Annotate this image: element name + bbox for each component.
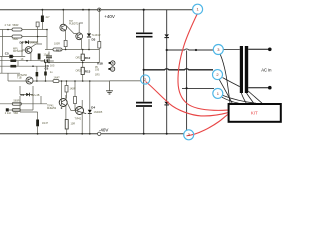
svg-text:-40V: -40V <box>99 128 109 133</box>
wire vertical x47 <box>46 30 48 50</box>
red wire 2 <box>146 82 228 116</box>
output terminal B <box>109 62 111 64</box>
resistor R12 vertical <box>81 54 84 61</box>
node 3 right <box>213 45 223 55</box>
svg-text:100R: 100R <box>54 43 60 46</box>
vertical x8 <box>3 30 9 82</box>
diode D7 on bus2 <box>164 102 169 105</box>
tiny component labels (olive) <box>5 16 103 126</box>
svg-text:C7: C7 <box>46 58 50 62</box>
svg-text:195: 195 <box>95 68 100 71</box>
svg-text:4 7uF: 4 7uF <box>5 24 12 27</box>
bus line 2 <box>166 10 168 134</box>
transformer core bar 2 <box>245 46 248 93</box>
wire H3 to node 1 <box>182 87 214 89</box>
svg-text:1N4005: 1N4005 <box>94 111 103 114</box>
svg-text:10uF: 10uF <box>44 53 50 56</box>
node 2 left <box>141 75 150 84</box>
svg-text:D3: D3 <box>92 37 96 41</box>
wire core to kit b <box>247 93 254 103</box>
wire node2 tap <box>223 78 240 87</box>
wire row 36.5 <box>0 36 47 38</box>
comp row62.5 <box>45 62 99 64</box>
svg-text:R12: R12 <box>85 56 91 60</box>
resistor R16 column x99 <box>98 10 100 63</box>
junction dots left schematic <box>7 9 100 135</box>
svg-text:10R: 10R <box>71 123 76 126</box>
diode D6 on bus2 <box>164 34 169 37</box>
wire H2 thick <box>144 69 213 70</box>
diode D4 <box>88 110 92 113</box>
wire node3 to core <box>223 49 240 51</box>
transistor Q3 <box>25 47 32 54</box>
capacitor C9 dark <box>38 54 41 60</box>
diode D3 <box>25 41 28 44</box>
svg-text:MJE252: MJE252 <box>47 107 57 110</box>
svg-text:TL431R: TL431R <box>92 34 101 37</box>
svg-text:2 2uF: 2 2uF <box>5 112 12 115</box>
diode D1 <box>26 93 29 96</box>
resistor R10 vertical x66.5 <box>65 86 68 93</box>
ground <box>106 91 113 94</box>
wire row 49.5 <box>45 49 99 51</box>
svg-text:OR22: OR22 <box>76 70 83 73</box>
svg-text:560R: 560R <box>13 24 19 27</box>
svg-text:R13: R13 <box>85 69 91 73</box>
resistor R15 vertical under Q6 <box>65 120 68 130</box>
resistor R9 row81 <box>53 80 59 83</box>
capacitor C15 plates <box>136 103 152 106</box>
bus line 3 <box>186 51 188 131</box>
wire row 64.5 <box>0 65 45 67</box>
wire node1 to kit corner <box>222 97 239 103</box>
node 1 right <box>213 88 223 98</box>
node 3 left <box>184 130 194 140</box>
wire row 81 <box>8 81 110 83</box>
ground lead from node 2 <box>110 81 142 91</box>
wire D3 row <box>22 37 38 43</box>
diode D5 column x89 <box>88 10 90 50</box>
capacitor C7 <box>46 56 52 58</box>
wire +40V top rail <box>0 9 193 11</box>
bus junction dots <box>143 9 198 135</box>
capacitor C8 <box>45 59 48 62</box>
capacitor C14 plates <box>136 33 153 36</box>
svg-text:560R: 560R <box>14 100 20 103</box>
svg-text:D3: D3 <box>20 41 24 45</box>
resistor R3 top-left <box>12 28 22 31</box>
svg-text:T1B: T1B <box>17 77 22 80</box>
terminal +40V <box>98 8 101 11</box>
svg-text:PLBDT2: PLBDT2 <box>69 22 79 25</box>
svg-text:+40V: +40V <box>104 14 115 19</box>
resistor R13 vertical <box>81 67 84 74</box>
red wire 1 <box>178 14 228 111</box>
svg-text:B: B <box>112 61 114 65</box>
wire node3 to kit <box>220 54 230 103</box>
terminal -40V <box>98 132 101 135</box>
svg-text:R17: R17 <box>56 48 61 52</box>
resistor R6 vertical under Q1 <box>64 40 67 46</box>
wire AC bottom <box>248 87 269 89</box>
wire vertical x42.4 <box>41 10 43 30</box>
input terminal blobs <box>10 59 16 62</box>
svg-text:TIP42: TIP42 <box>75 118 82 121</box>
wire core to kit c <box>248 91 262 103</box>
transistor Q2 <box>76 33 83 40</box>
svg-text:D1: D1 <box>21 93 25 97</box>
wire node2 to kit <box>219 79 232 103</box>
svg-text:1N4?: 1N4? <box>42 122 49 125</box>
svg-text:C8: C8 <box>45 64 49 68</box>
wire core to kit a <box>241 93 246 103</box>
wire row 29.5 <box>0 29 47 31</box>
transistor Q7 <box>76 107 84 115</box>
svg-text:56R: 56R <box>14 112 19 115</box>
resistor R4 <box>12 35 22 38</box>
wire node1 to kit top <box>222 95 256 103</box>
svg-text:1R5: 1R5 <box>95 74 100 77</box>
svg-text:4x7: 4x7 <box>46 16 51 19</box>
resistor R5 vertical <box>36 22 39 27</box>
bus line 1 <box>143 10 145 134</box>
svg-text:MPSA06: MPSA06 <box>13 50 23 53</box>
wire -40V bottom rail <box>0 133 184 135</box>
capacitor C2 dark <box>41 16 44 23</box>
svg-text:1N4148: 1N4148 <box>30 42 39 45</box>
svg-text:AC in: AC in <box>261 67 272 72</box>
transformer core bar 1 <box>240 46 243 93</box>
bold component labels <box>5 37 103 109</box>
svg-text:KIT: KIT <box>251 111 258 116</box>
capacitor C10 dark <box>36 72 39 76</box>
wire H1 to node 3 <box>167 49 214 50</box>
transistor Q1 <box>60 24 67 31</box>
output terminal C <box>108 68 110 70</box>
svg-text:56kR: 56kR <box>13 38 19 41</box>
wire AC top <box>248 48 269 50</box>
wire row 59.5 <box>0 60 45 62</box>
diode D2 <box>36 120 39 127</box>
secondary wires to nodes <box>219 50 262 104</box>
svg-text:C5: C5 <box>5 51 9 55</box>
svg-text:1K: 1K <box>21 58 24 61</box>
svg-text:1K5: 1K5 <box>50 64 55 67</box>
svg-text:Ref+4B: Ref+4B <box>31 94 40 97</box>
node 1 left <box>193 4 203 14</box>
svg-text:1N4?: 1N4? <box>54 77 61 80</box>
transistor Q6 <box>59 99 67 107</box>
resistor R17 <box>53 48 62 51</box>
svg-text:MPSA56: MPSA56 <box>17 74 27 77</box>
red wire 3 <box>187 115 228 136</box>
resistor R11 vertical x75 <box>74 97 77 104</box>
capacitor C11 dark <box>44 72 47 76</box>
input cap C5 <box>9 55 13 58</box>
node 2 right <box>213 70 223 80</box>
svg-text:D4: D4 <box>91 105 95 109</box>
svg-text:OR22: OR22 <box>76 56 83 59</box>
svg-text:1K8F: 1K8F <box>70 87 76 90</box>
transistor Q5 <box>26 77 33 84</box>
svg-text:R18: R18 <box>97 62 103 66</box>
